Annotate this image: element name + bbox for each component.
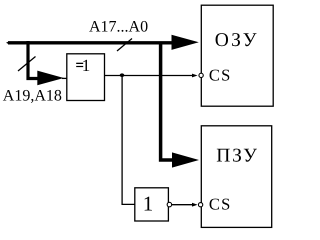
svg-text:А17...А0: А17...А0 bbox=[89, 18, 148, 35]
svg-text:CS: CS bbox=[209, 195, 232, 214]
svg-text:А19,А18: А19,А18 bbox=[3, 87, 62, 104]
svg-text:1: 1 bbox=[143, 192, 154, 216]
svg-text:1: 1 bbox=[82, 56, 91, 75]
svg-text:CS: CS bbox=[209, 66, 232, 85]
svg-text:ОЗУ: ОЗУ bbox=[215, 30, 259, 51]
svg-text:ПЗУ: ПЗУ bbox=[216, 146, 258, 167]
